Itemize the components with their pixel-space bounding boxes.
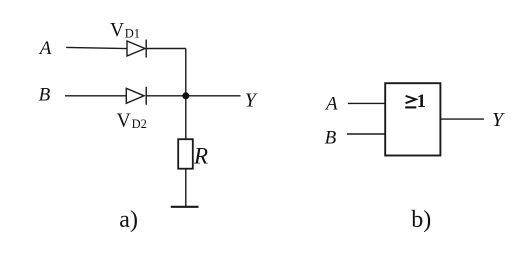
svg-text:Y: Y	[245, 90, 258, 112]
svg-text:R: R	[193, 144, 208, 169]
svg-text:A: A	[38, 38, 52, 59]
svg-text:a): a)	[119, 207, 138, 233]
svg-text:b): b)	[411, 207, 431, 233]
svg-text:B: B	[325, 127, 337, 148]
svg-text:A: A	[324, 93, 338, 114]
svg-text:B: B	[39, 85, 51, 106]
svg-text:Y: Y	[492, 109, 505, 131]
svg-text:1: 1	[417, 92, 426, 112]
